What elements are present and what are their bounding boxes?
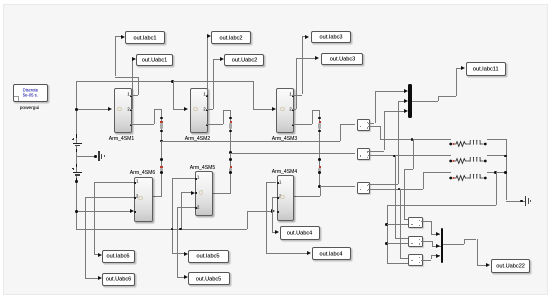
- machine Arm_4SM5: [195, 171, 213, 216]
- wire mux2 step: [464, 239, 465, 244]
- arrowhead mux2 in2: [436, 244, 440, 248]
- wire return drop: [387, 205, 388, 263]
- machine Arm_4SM1: [114, 88, 132, 134]
- wire m2 Uabc2 horiz: [213, 59, 220, 60]
- wire mux1 step h: [438, 96, 456, 97]
- node phase C junction: [318, 185, 321, 188]
- wire m3 loop top: [312, 110, 320, 111]
- goto out.Uabc6: [102, 273, 136, 286]
- arrowhead out.Uabc4: [275, 230, 279, 234]
- wire m6 port2: [85, 197, 134, 198]
- wire VMA to mux: [431, 234, 440, 235]
- arrowhead out.Uabc5: [184, 275, 188, 279]
- machine Arm_4SM3: [276, 88, 294, 134]
- goto out.Iabc6: [102, 250, 136, 263]
- wire m5 input riser: [181, 192, 182, 229]
- arrowhead mux2 in1: [436, 232, 440, 236]
- wire to Arm_4SM3 input: [253, 109, 273, 110]
- wire rise to Arm_4SM4 input: [247, 211, 248, 229]
- wire mux2 to box: [477, 265, 487, 266]
- arrowhead mux in1: [404, 89, 408, 93]
- arrowhead out.Iabc4: [307, 251, 311, 255]
- node VMB bottom tap: [385, 242, 388, 245]
- wire m6 port1 drop: [94, 182, 95, 255]
- wire m5 Uabc5 horiz: [177, 277, 184, 278]
- goto out.Uabc1: [136, 54, 174, 66]
- node ground tap: [94, 155, 97, 158]
- wire m1 port2 stub: [130, 109, 133, 110]
- arrowhead Arm_4SM1 input: [108, 107, 112, 111]
- goto out.Iabc11: [466, 62, 506, 76]
- voltage measurement VMB: [408, 236, 422, 248]
- wire to VMB top: [395, 238, 409, 239]
- wire m5 port1: [172, 178, 195, 179]
- wire m1 port1 jog: [115, 77, 139, 78]
- wire m5 port1 drop: [172, 178, 173, 254]
- wire VMC rise: [431, 255, 432, 259]
- wire RL3 out: [487, 172, 506, 173]
- mux bus bar 1: [408, 84, 411, 118]
- label Arm_4SM3: [244, 133, 324, 144]
- DC source V1: [72, 134, 83, 152]
- wire m3 bottom riser: [312, 110, 313, 124]
- wire cm1 series drop: [380, 126, 381, 139]
- wire m4 port2 drop: [272, 197, 273, 233]
- wire bottom rail: [76, 229, 247, 230]
- wire railA riser: [340, 124, 341, 141]
- label Arm_4SM5: [163, 162, 243, 173]
- wire m2 bottom port: [206, 124, 224, 125]
- arrowhead mux2 in3: [436, 254, 440, 258]
- wire m6 port1: [94, 182, 135, 183]
- wire bottom return: [387, 205, 495, 206]
- arrowhead out.Iabc5: [184, 252, 188, 256]
- wire m1 port1 stub: [130, 95, 139, 96]
- wire tap drop2: [404, 169, 405, 220]
- wire m1 port1 riser: [138, 77, 139, 95]
- wire m6 Iabc6 horiz: [94, 254, 98, 255]
- goto out.Uabc22: [491, 259, 531, 273]
- wire cm3 signal: [368, 184, 398, 185]
- wire tap jog: [404, 169, 413, 170]
- current measurement CM1: [357, 119, 370, 131]
- wire m3 port1 riser: [302, 36, 303, 94]
- current measurement CM2: [357, 148, 370, 160]
- arrowhead out.Iabc1: [121, 35, 125, 39]
- mux bus bar 2: [441, 228, 444, 263]
- wire cm2 signal: [368, 151, 383, 152]
- label Arm_4SM6: [102, 167, 182, 178]
- label Arm_4SM2: [158, 133, 238, 144]
- node ground2: [520, 200, 523, 203]
- wire m3 port2 riser: [296, 58, 297, 109]
- voltage measurement VMA: [408, 217, 422, 229]
- RLC branch RL3: [449, 169, 489, 177]
- wire m1 bottom riser: [154, 109, 155, 124]
- wire to ground2: [506, 201, 525, 202]
- wire m2 Iabc2 horiz: [206, 36, 209, 37]
- node rail crossing dot: [171, 228, 173, 230]
- wire cm3 tap drop: [400, 189, 401, 259]
- inductor arm B lower: [0, 0, 1, 1]
- wire mux2 step h: [464, 239, 477, 240]
- inductor arm A upper: [0, 0, 1, 1]
- wire phase C to m4: [320, 186, 321, 195]
- wire m4 output: [292, 196, 320, 197]
- wire m4 port1 drop: [266, 182, 267, 253]
- wire m3 bottom port: [292, 124, 312, 125]
- current measurement CM3: [357, 182, 370, 194]
- RLC branch RL2: [449, 152, 489, 160]
- wire m6 Uabc6 horiz: [85, 278, 98, 279]
- node rail-m1 junction: [75, 108, 78, 111]
- wire m2 port1 riser: [207, 36, 208, 94]
- wire m1 to Iabc1: [115, 36, 116, 76]
- wire phase B rail: [231, 153, 356, 154]
- arrowhead out.Uabc6: [98, 276, 102, 280]
- wire to VMB bottom: [387, 243, 409, 244]
- node rail-m5 junction: [179, 228, 182, 231]
- node bus-m2 junction: [171, 80, 174, 83]
- wire m3 port2 stub: [292, 109, 296, 110]
- wire VMB to mux: [432, 246, 441, 247]
- inductor arm A lower: [0, 0, 1, 1]
- machine Arm_4SM6: [134, 177, 153, 222]
- powergui block: [13, 84, 49, 102]
- node RL1 tap: [411, 138, 414, 141]
- wire mux1 rise: [456, 68, 457, 96]
- wire cm1 signal riser: [375, 91, 376, 124]
- wire VMB drop: [432, 241, 433, 246]
- arrowhead out.Iabc3: [305, 35, 309, 39]
- wire to RL3: [423, 172, 451, 173]
- wire VMA out: [421, 221, 431, 222]
- wire bus drop to m2: [173, 81, 174, 109]
- wire m1 loop top: [154, 109, 162, 110]
- inductor arm C lower: [0, 0, 1, 1]
- arrowhead out.Uabc3: [315, 56, 319, 60]
- label Arm_4SM4: [244, 166, 324, 177]
- wire VMC to mux: [431, 255, 440, 256]
- wire m3 Iabc3 horiz: [302, 36, 305, 37]
- wire cm1 signal: [368, 123, 374, 124]
- node RL3 junction: [494, 171, 497, 174]
- wire to Arm_4SM1 input: [76, 109, 109, 110]
- wire m5 port2: [177, 207, 195, 208]
- wire mux1 to box: [456, 68, 462, 69]
- wire RL3 rise: [423, 172, 424, 188]
- goto out.Iabc2: [211, 31, 251, 43]
- arrowhead Arm_4SM4 input: [271, 209, 275, 213]
- goto out.Iabc5: [188, 250, 229, 264]
- wire cm3 series: [368, 189, 423, 190]
- wire m4 Iabc4 horiz: [266, 253, 308, 254]
- arrowhead Arm_4SM2 input: [184, 107, 188, 111]
- wire m1 Iabc1 horiz: [115, 36, 121, 37]
- wire to VMC top: [400, 258, 409, 259]
- wire RL3 drop: [496, 172, 497, 204]
- wire cm2 series: [368, 155, 451, 156]
- goto out.Iabc1: [125, 31, 165, 43]
- wire left rail lower: [76, 182, 77, 230]
- machine Arm_4SM2: [190, 88, 208, 134]
- wire RL2 out: [487, 155, 506, 156]
- wire m5 output to inductor: [211, 193, 231, 194]
- wire cm1 to mux: [375, 91, 405, 92]
- wire to VMA top: [404, 219, 409, 220]
- wire railA step: [340, 124, 355, 125]
- goto out.Uabc3: [321, 53, 363, 65]
- arrowhead out.Uabc22: [486, 263, 490, 267]
- goto out.Uabc5: [188, 272, 230, 285]
- wire star vertical: [506, 139, 507, 201]
- DC source V2: [72, 164, 83, 182]
- machine Arm_4SM4: [277, 175, 295, 221]
- node cm3 tap: [398, 188, 401, 191]
- wire mux1 out: [412, 101, 439, 102]
- wire cm2 signal riser: [384, 111, 385, 151]
- goto out.Uabc2: [224, 54, 264, 66]
- wire m2 port2 stub: [206, 109, 214, 110]
- wire cm3 signal riser: [398, 101, 399, 185]
- wire phase C rail: [320, 186, 355, 187]
- arrowhead mux in3: [404, 109, 408, 113]
- wire m2 port1 stub: [206, 95, 208, 96]
- label Arm_4SM1: [82, 133, 162, 144]
- goto out.Iabc4: [312, 247, 352, 260]
- wire RL2 tap drop: [395, 155, 396, 238]
- wire m4 port1: [266, 182, 277, 183]
- RLC branch RL1: [449, 135, 489, 143]
- wire cm3 to mux: [398, 101, 405, 102]
- arrowhead mux in2: [404, 99, 408, 103]
- wire m2 port2 riser: [213, 59, 214, 109]
- ground G1: [98, 151, 106, 161]
- wire VMB out: [421, 241, 432, 242]
- node star RL2: [504, 155, 507, 158]
- inductor arm C upper: [0, 0, 1, 1]
- wire to Arm_4SM6 port3: [76, 211, 131, 212]
- wire ground tap: [76, 156, 96, 157]
- node phase A junction: [160, 140, 163, 143]
- wire m1 port2 riser: [132, 59, 133, 109]
- arrowhead out.Iabc6: [98, 253, 102, 257]
- wire to RL1: [380, 139, 451, 140]
- wire mux2 drop: [477, 239, 478, 266]
- wire phase A rail: [162, 141, 341, 142]
- wire to Arm_4SM4 input: [247, 211, 272, 212]
- wire RL1 out: [487, 139, 506, 140]
- wire top DC bus: [76, 81, 253, 82]
- arrowhead out.Iabc2: [207, 34, 211, 38]
- arrowhead Arm_4SM5 input: [191, 191, 195, 195]
- node star RL3: [504, 171, 507, 174]
- wire m5 Iabc5 horiz: [172, 253, 184, 254]
- wire to VMA bottom: [387, 224, 409, 225]
- wire cm1 series: [368, 126, 380, 127]
- wire mux1 step: [438, 96, 439, 101]
- node rail-m6 junction: [75, 210, 78, 213]
- wire bus drop to m3: [253, 81, 254, 109]
- wire cm2 to mux: [384, 111, 405, 112]
- ground G2: [525, 196, 533, 206]
- powergui label: [0, 102, 70, 113]
- wire left rail upper: [76, 81, 77, 135]
- arrowhead out.Uabc1: [132, 57, 136, 61]
- arrowhead Arm_4SM6 input: [130, 209, 134, 213]
- wire mux2 out: [443, 244, 464, 245]
- wire m2 bottom riser: [223, 110, 224, 124]
- node RL2 tap: [393, 155, 396, 158]
- wire RL1 tap drop: [413, 139, 414, 169]
- inductor arm B upper: [0, 0, 1, 1]
- arrowhead out.Uabc2: [220, 57, 224, 61]
- wire m3 Uabc3 horiz: [296, 58, 315, 59]
- wire m4 port2: [272, 197, 277, 198]
- wire m1 bottom port: [130, 124, 155, 125]
- wire to VMC bottom: [387, 263, 409, 264]
- wire VMA drop: [431, 221, 432, 233]
- voltage measurement VMC: [408, 254, 422, 265]
- wire m3 port1 stub: [292, 95, 302, 96]
- wire to Arm_4SM2 input: [173, 109, 185, 110]
- wire m5 input: [181, 192, 192, 193]
- wire m2 loop top: [223, 110, 231, 111]
- node rail dot: [75, 180, 77, 182]
- wire m6 port2 drop: [85, 197, 86, 279]
- wire VMC out: [421, 260, 431, 261]
- arrowhead out.Iabc11: [461, 66, 465, 70]
- node phase B junction: [229, 151, 232, 154]
- wire m5 port2 drop: [177, 207, 178, 277]
- goto out.Iabc3: [311, 31, 351, 43]
- wire between battery1 and tap: [76, 152, 77, 165]
- goto out.Uabc4: [280, 226, 320, 240]
- wire m6 output to inductor: [151, 196, 162, 197]
- wire m4 Uabc4 horiz: [272, 232, 276, 233]
- arrowhead Arm_4SM3 input: [272, 107, 276, 111]
- node VMA bottom tap: [385, 223, 388, 226]
